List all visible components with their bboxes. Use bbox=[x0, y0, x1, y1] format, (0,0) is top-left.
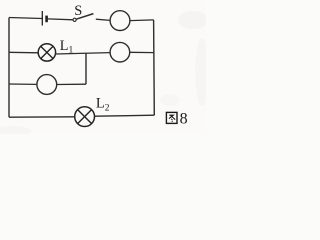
battery cell bbox=[42, 11, 46, 26]
wire: row2 left to lamp L1 bbox=[9, 51, 38, 54]
lamp L1 bbox=[38, 44, 55, 61]
wire: lamp L1 to meter circle 2, with junction at x=86 bbox=[56, 53, 111, 54]
lamp L2 bbox=[75, 107, 95, 127]
wire: left vertical bbox=[8, 18, 10, 118]
wire: meter circle 3 to junction vertical bbox=[57, 83, 86, 85]
wire: right vertical bbox=[153, 20, 156, 115]
wire: meter circle 2 to right vertical bbox=[130, 51, 154, 53]
wire: battery to switch pivot bbox=[48, 18, 73, 21]
wire: bottom right to lamp L2 bbox=[94, 115, 154, 116]
wire: switch to meter circle 1 bbox=[96, 19, 110, 20]
caption: hand-drawn CJK 图 bbox=[166, 112, 177, 123]
switch S bbox=[73, 14, 93, 22]
meter circle (middle) bbox=[110, 42, 130, 62]
wire: lamp L2 to bottom-left corner bbox=[9, 116, 75, 118]
wire: meter circle 1 to top-right corner bbox=[130, 19, 154, 22]
wire: top-left segment to battery bbox=[9, 18, 42, 19]
wire: row3 left to meter circle 3 bbox=[9, 83, 37, 85]
svg-text:8: 8 bbox=[180, 110, 188, 127]
meter circle (bottom-left) bbox=[37, 75, 57, 95]
svg-text:S: S bbox=[74, 3, 82, 19]
meter circle (top) bbox=[110, 11, 130, 31]
wire: junction vertical from row2 down to row3 bbox=[85, 54, 87, 85]
